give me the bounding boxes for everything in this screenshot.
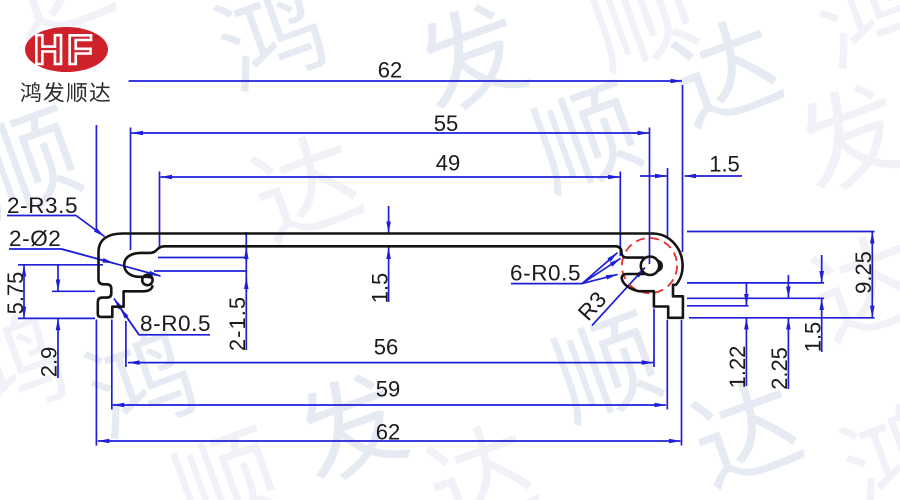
right cavity nub [658,261,662,271]
svg-text:49: 49 [436,151,460,176]
dim 1.5 middle lower leg [388,248,390,303]
left cavity upper hook [124,246,164,277]
extension line boss centerline x649.5 [649,128,651,265]
svg-text:2-1.5: 2-1.5 [225,296,250,351]
dim 1.5 top right: left leg arrow [640,175,667,177]
label R3 leader [592,268,645,326]
svg-text:8-R0.5: 8-R0.5 [140,311,211,336]
right reference line y231.5 [687,231,875,233]
dim 2.25 upper leg [787,275,789,298]
dim 62 bottom line [98,440,681,442]
extension line x620.3 [619,172,621,257]
svg-text:2-Ø2: 2-Ø2 [9,226,61,251]
left reference line y264.8 [18,264,103,266]
right slot bottom line and lip [622,274,644,277]
dim 5.75 vertical line [23,265,25,318]
plate underside line [164,245,617,248]
svg-text:1.22: 1.22 [725,346,750,389]
label 6-R0.5 underline and leaders [511,253,618,284]
svg-text:59: 59 [376,377,400,402]
dim 2.9 lower leg [57,319,59,378]
extension line x667.5 [667,168,669,237]
logo red ellipse [25,27,108,72]
extension line x681.5 [681,320,683,446]
label 8-R0.5 underline and leaders [120,308,210,335]
right cavity screw hole circle [641,257,659,275]
dim 56 line [128,362,653,364]
profile top surface and left end outer outline with foot [98,234,653,317]
svg-text:62: 62 [376,420,400,445]
svg-text:2.25: 2.25 [767,347,792,390]
label 2-R3.5 underline and leader [7,216,105,237]
extension line x667.3 [666,320,668,410]
left screw hole ring [142,275,152,285]
svg-text:1.5: 1.5 [800,322,825,353]
dim 1.5 middle upper leg [388,206,390,233]
watermark pattern of light company-name glyphs [0,0,119,45]
dim 1.5 right upper leg [821,255,823,283]
right reference line y298.3 [687,297,824,299]
extension line x125.9 [125,321,127,367]
label 2-o2 underline and leader [9,249,161,276]
reference line y271 [154,270,246,272]
right reference line y305.8 [687,305,749,307]
dim 62 top line [129,80,682,82]
dim 1.22 lower leg [745,318,747,386]
extension line x159.5 [159,172,161,248]
right reference line y282.9 [687,282,824,284]
svg-text:62: 62 [378,58,402,83]
extension line x111.8 [111,320,113,410]
svg-text:2.9: 2.9 [37,347,62,378]
extension line right x682.5 [682,85,684,252]
dim 1.22 upper leg [745,283,747,306]
dim 2.9 upper leg [57,265,59,291]
dim 49 line [161,176,620,178]
svg-text:2-R3.5: 2-R3.5 [7,193,78,218]
reference line y257.5 [158,257,246,259]
svg-text:R3: R3 [573,286,612,325]
dim 1.5 right lower leg [821,299,823,352]
dim 2-1.5 leader leg [245,232,247,350]
dim 55 line [132,132,650,134]
right mouth top lip and slot top [617,246,644,257]
dim 59 line [113,404,666,406]
right reference line y317.8 [689,317,875,319]
extension line x130.5 [130,128,132,251]
left reference line y318.4 [18,317,95,319]
svg-text:6-R0.5: 6-R0.5 [510,261,581,286]
extension line x96.4 upper [95,125,97,231]
extension line x96.4 lower [95,320,97,446]
dim 2.25 lower leg [787,318,789,389]
svg-text:5.75: 5.75 [3,272,28,315]
svg-text:HF: HF [34,26,96,73]
svg-text:9.25: 9.25 [851,251,876,294]
svg-text:55: 55 [434,111,458,136]
svg-text:1.5: 1.5 [367,273,392,304]
dim 9.25 vertical line [871,232,873,317]
svg-text:56: 56 [374,335,398,360]
logo trademark dot [94,35,98,39]
left reference line y291.3 [52,290,95,292]
dim 1.5 top right: right leg arrow [685,175,742,177]
right boss outer arc and foot [622,234,683,318]
red dashed circle R3 boss [622,238,677,293]
svg-text:1.5: 1.5 [709,152,740,177]
extension line x654 [653,309,655,368]
logo company name glyphs [21,82,41,102]
